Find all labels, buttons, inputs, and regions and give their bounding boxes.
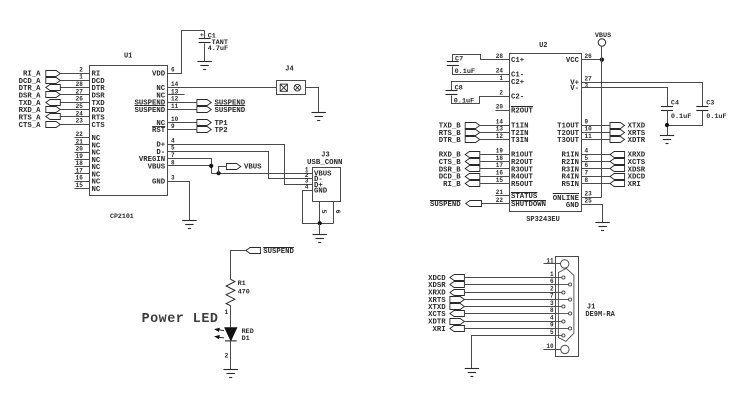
port CTS_A (46, 122, 61, 128)
J1 mounting hole pin 11 (561, 260, 569, 268)
svg-text:GND: GND (314, 188, 328, 196)
svg-text:17: 17 (496, 162, 504, 169)
wire NC stub pin 18 (75, 166, 90, 168)
wire XCTS to J1 pin 8 (465, 313, 556, 315)
wire R4IN to XDCD (582, 176, 611, 178)
port XTXD (610, 123, 625, 129)
wire XDCD to J1 pin 1 (465, 277, 556, 279)
svg-text:C2+: C2+ (511, 79, 525, 87)
IC U2 SP3243EU (510, 54, 582, 212)
port SUSPEND (197, 100, 211, 106)
J1 pin 6 contact (556, 283, 572, 286)
svg-text:DTR_B: DTR_B (439, 137, 462, 145)
ground at LED (224, 370, 238, 378)
port TP1 (197, 120, 211, 126)
J1 pin 5 contact (556, 334, 565, 337)
wire XTXD to J1 pin 3 (465, 306, 556, 308)
svg-text:9: 9 (550, 322, 554, 329)
svg-text:23: 23 (585, 191, 593, 198)
port RXD_A (46, 107, 61, 113)
wire stub pin20 (496, 110, 510, 112)
svg-text:J4: J4 (285, 66, 293, 74)
wire XRI to J1 pin 9 (465, 328, 556, 330)
svg-text:20: 20 (76, 146, 84, 153)
svg-text:VBUS: VBUS (244, 164, 262, 172)
svg-text:18: 18 (496, 155, 504, 162)
svg-text:VCC: VCC (566, 57, 580, 65)
svg-text:T3OUT: T3OUT (557, 137, 580, 145)
ground at C4 C3 (660, 136, 674, 144)
wire NC stub pin 17 (75, 173, 90, 175)
svg-text:R2OUT: R2OUT (511, 108, 534, 116)
wire NC stub pin 15 (75, 188, 90, 190)
wire DCD_B to U2 (480, 176, 510, 178)
svg-text:19: 19 (76, 153, 84, 160)
svg-text:0.1uF: 0.1uF (454, 97, 474, 105)
wire C1 top lead (204, 31, 206, 39)
wire VBUS pin8 (168, 165, 212, 167)
port XDSR at J1 (450, 282, 465, 288)
wire C1+ to C7 (453, 55, 510, 62)
wire RTS_B to U2 (480, 132, 510, 134)
J1 D-sub face outline (558, 268, 574, 341)
wire pin9 to TP2 (168, 129, 197, 131)
wire SUSPEND to R1 (231, 251, 246, 280)
wire XDTR to J1 pin 4 (465, 321, 556, 323)
J1 pin 4 contact (556, 320, 565, 323)
wire XDSR to J1 pin 6 (465, 284, 556, 286)
port DSR_A (46, 92, 61, 98)
wire NC stub pin 13 (168, 94, 185, 96)
wire RTS_A to U1 pin 24 (61, 116, 90, 118)
wire VBUS net to J3 pin1 (212, 173, 313, 175)
svg-text:10: 10 (171, 116, 179, 123)
port XRXD (610, 152, 625, 158)
wire RI_B to U2 (480, 183, 510, 185)
wire C4 to ground (667, 111, 669, 136)
wire XRTS to J1 pin 7 (465, 299, 556, 301)
svg-text:4: 4 (585, 148, 589, 155)
svg-text:12: 12 (496, 133, 504, 140)
svg-text:3: 3 (550, 300, 554, 307)
svg-text:C4: C4 (671, 99, 679, 107)
port /SUSPEND at LED (246, 248, 261, 254)
J1 pin 9 contact (556, 327, 572, 330)
svg-text:10: 10 (585, 126, 593, 133)
svg-text:4.7uF: 4.7uF (208, 45, 228, 53)
svg-text:4: 4 (171, 137, 175, 144)
port XDTR at J1 (450, 319, 465, 325)
svg-text:26: 26 (76, 96, 84, 103)
svg-text:9: 9 (585, 118, 589, 125)
svg-text:VBUS: VBUS (148, 163, 166, 171)
port XRTS (610, 130, 625, 136)
port RI_A (46, 71, 61, 77)
svg-text:2: 2 (550, 285, 554, 292)
svg-text:0.1uF: 0.1uF (706, 113, 726, 121)
J4 pin 1 square (280, 84, 287, 91)
svg-text:1: 1 (79, 74, 83, 81)
wire J3 pin5 stub (319, 202, 321, 224)
wire VCC to VBUS (582, 59, 602, 61)
svg-text:R1: R1 (238, 280, 246, 288)
svg-text:17: 17 (76, 167, 84, 174)
wire U2 GND to ground (582, 205, 603, 223)
svg-text:2: 2 (499, 90, 503, 97)
wire C1 to ground (204, 44, 206, 62)
svg-text:3: 3 (585, 82, 589, 89)
svg-text:5: 5 (320, 210, 327, 214)
capacitor C7 (447, 62, 459, 66)
svg-text:7: 7 (585, 170, 589, 177)
wire DSR_A to U1 pin 27 (61, 94, 90, 96)
wire ONLINE to VBUS rail (582, 197, 602, 199)
port XDCD at J1 (450, 275, 465, 281)
ground at J3 (313, 235, 327, 243)
connector J3 USB_CONN (313, 168, 341, 202)
port RXD_B (465, 152, 480, 158)
ground at C1 (197, 62, 211, 70)
svg-text:15: 15 (496, 177, 504, 184)
svg-text:13: 13 (496, 126, 504, 133)
ground at J4 (312, 113, 326, 121)
wire U1 GND to ground (168, 182, 190, 221)
svg-text:SUSPEND: SUSPEND (215, 107, 246, 115)
svg-text:21: 21 (76, 138, 84, 145)
svg-text:CP2101: CP2101 (110, 213, 134, 220)
svg-text:16: 16 (496, 170, 504, 177)
wire stub to VBUS flag (219, 167, 227, 174)
svg-text:20: 20 (496, 103, 504, 110)
svg-text:11: 11 (171, 103, 179, 110)
port TXD_A (46, 100, 61, 106)
wire R2IN to XCTS (582, 161, 611, 163)
port DCD_B (465, 174, 480, 180)
svg-text:10: 10 (546, 343, 554, 350)
wire J4 to ground (306, 88, 319, 113)
wire J3 pin6 stub (333, 202, 335, 224)
J1 pin 7 contact (556, 298, 572, 301)
svg-text:1: 1 (550, 271, 554, 278)
wire T1OUT to XTXD (582, 125, 611, 127)
svg-text:C8: C8 (455, 84, 463, 92)
svg-text:1: 1 (499, 75, 503, 82)
svg-text:SUSPEND: SUSPEND (135, 107, 166, 115)
svg-text:SUSPEND: SUSPEND (430, 201, 461, 209)
port XDCD (610, 174, 625, 180)
port XDTR (610, 137, 625, 143)
svg-text:26: 26 (585, 53, 593, 60)
wire VBUS rail down to ONLINE (601, 47, 603, 198)
svg-text:6: 6 (171, 66, 175, 73)
port RI_B (465, 181, 480, 187)
svg-text:U1: U1 (124, 53, 132, 61)
wire R1IN to XRXD (582, 154, 611, 156)
svg-text:2: 2 (79, 66, 83, 73)
svg-text:5: 5 (550, 329, 554, 336)
LED arrows (215, 328, 224, 338)
connector J1 DE9M-RA (556, 257, 579, 357)
svg-text:RST: RST (152, 127, 166, 135)
junction VBUS flag stub (217, 171, 221, 175)
port DCD_A (46, 78, 61, 84)
svg-text:R5IN: R5IN (561, 181, 579, 189)
svg-text:6: 6 (334, 210, 341, 214)
svg-text:T3IN: T3IN (511, 137, 529, 145)
wire U1 pin14 to J4 (168, 87, 277, 89)
wire C3 bottom to C4 (668, 111, 703, 126)
wire to ground J3 (319, 224, 321, 235)
LED D1 (225, 328, 237, 341)
port TP2 (197, 127, 211, 133)
IC U1 CP2101 (90, 66, 168, 196)
svg-text:15: 15 (76, 182, 84, 189)
svg-text:28: 28 (76, 81, 84, 88)
port XCTS (610, 159, 625, 165)
svg-text:24: 24 (76, 110, 84, 117)
wire CTS_B to U2 (480, 161, 510, 163)
wire DTR_A to U1 pin 28 (61, 87, 90, 89)
svg-text:VBUS: VBUS (595, 32, 611, 40)
wire TXD_A to U1 pin 26 (61, 102, 90, 104)
wire RI_A to U1 pin 2 (61, 73, 90, 75)
wire SUSPEND to SHUTDOWN (482, 203, 510, 205)
wire D+ U1 pin4 to J3 pin3 (168, 145, 313, 185)
svg-text:STATUS: STATUS (511, 193, 538, 201)
power symbol VBUS (598, 39, 605, 46)
svg-text:D1: D1 (242, 335, 250, 343)
svg-text:25: 25 (585, 198, 593, 205)
wire XRXD to J1 pin 2 (465, 292, 556, 294)
svg-text:28: 28 (496, 53, 504, 60)
port XRXD at J1 (450, 290, 465, 296)
svg-text:25: 25 (76, 103, 84, 110)
port XTXD at J1 (450, 304, 465, 310)
svg-text:11: 11 (546, 257, 554, 264)
svg-text:11: 11 (585, 133, 593, 140)
svg-text:U2: U2 (539, 42, 547, 50)
ground at J1 (465, 369, 479, 377)
svg-text:GND: GND (152, 179, 166, 187)
svg-text:22: 22 (496, 197, 504, 204)
junction C3 C4 ground (665, 123, 669, 127)
wire VDD to C1 (168, 31, 205, 74)
svg-text:8: 8 (585, 177, 589, 184)
wire pin11 to /SUSPEND flag (168, 109, 197, 111)
wire NC stub pin 21 (75, 144, 90, 146)
svg-text:27: 27 (76, 88, 84, 95)
svg-text:12: 12 (171, 96, 179, 103)
svg-text:GND: GND (566, 202, 580, 210)
port CTS_B (465, 159, 480, 165)
port SUSPEND at U2 (466, 201, 482, 207)
port VBUS (226, 164, 240, 170)
J1 pin 1 contact (556, 276, 565, 279)
junction VREGIN/VBUS (209, 164, 213, 168)
svg-text:0.1uF: 0.1uF (671, 113, 691, 121)
wire T3OUT to XDTR (582, 139, 611, 141)
port XDSR (610, 166, 625, 172)
junction J3 ground rail (318, 221, 322, 225)
wire C2+ to C8 (452, 82, 510, 91)
connector J4 (277, 81, 306, 95)
wire J1 pin 10 stub (544, 349, 561, 351)
svg-text:18: 18 (76, 160, 84, 167)
wire R3IN to XDSR (582, 168, 611, 170)
svg-text:DE9M-RA: DE9M-RA (585, 311, 615, 319)
svg-text:24: 24 (496, 68, 504, 75)
port XRI at J1 (450, 326, 465, 332)
port RTS_B (465, 130, 480, 136)
wire TXD_B to U2 (480, 125, 510, 127)
wire DSR_B to U2 (480, 168, 510, 170)
svg-text:TP2: TP2 (215, 127, 228, 135)
svg-text:C7: C7 (455, 55, 463, 63)
wire J1 pin 11 stub (544, 263, 561, 265)
port XRTS at J1 (450, 297, 465, 303)
svg-text:V-: V- (570, 85, 579, 93)
wire RXD_A to U1 pin 25 (61, 109, 90, 111)
wire J3 GND to shield rail (303, 191, 334, 224)
svg-text:16: 16 (76, 175, 84, 182)
svg-text:CTS: CTS (92, 122, 106, 130)
ground at U1 (182, 221, 196, 229)
svg-text:C2-: C2- (511, 94, 524, 102)
svg-text:XDTR: XDTR (628, 137, 646, 145)
capacitor C3 (696, 107, 708, 111)
J1 pin 2 contact (556, 291, 565, 294)
svg-text:23: 23 (76, 118, 84, 125)
J1 pin 3 contact (556, 305, 565, 308)
wire R5IN to XRI (582, 183, 611, 185)
ground at U2 (595, 223, 609, 231)
port TXD_B (465, 123, 480, 129)
svg-text:4: 4 (550, 314, 554, 321)
svg-text:1: 1 (225, 309, 229, 316)
wire J1 pin5 to ground (472, 336, 556, 369)
wire VREGIN down to VBUS net (168, 159, 212, 174)
svg-text:XRI: XRI (628, 181, 641, 189)
wire NC stub pin 22 (75, 137, 90, 139)
svg-text:7: 7 (550, 293, 554, 300)
svg-text:R5OUT: R5OUT (511, 181, 534, 189)
svg-text:SUSPEND: SUSPEND (263, 248, 294, 256)
wire NC stub pin 16 (75, 181, 90, 183)
wire D1 to ground (230, 341, 232, 370)
svg-text:5: 5 (171, 145, 175, 152)
svg-text:RI_B: RI_B (443, 181, 461, 189)
wire stub pin21 (496, 195, 510, 197)
svg-text:4: 4 (305, 184, 309, 191)
svg-text:7: 7 (171, 152, 175, 159)
wire T2OUT to XRTS (582, 132, 611, 134)
svg-text:19: 19 (496, 148, 504, 155)
capacitor C1 (199, 39, 211, 43)
wire CTS_A to U1 pin 23 (61, 124, 90, 126)
port RTS_A (46, 114, 61, 120)
svg-text:6: 6 (550, 278, 554, 285)
svg-text:VDD: VDD (152, 71, 166, 79)
capacitor C4 (661, 107, 673, 111)
svg-text:C1+: C1+ (511, 57, 525, 65)
J1 pin 8 contact (556, 312, 572, 315)
wire RXD_B to U2 (480, 154, 510, 156)
svg-text:8: 8 (550, 307, 554, 314)
svg-text:C3: C3 (706, 99, 714, 107)
capacitor C8 (446, 91, 458, 95)
svg-text:Power LED: Power LED (142, 312, 219, 327)
svg-text:5: 5 (585, 155, 589, 162)
wire NC stub pin 19 (75, 159, 90, 161)
svg-text:+: + (200, 32, 204, 39)
svg-text:SHUTDOWN: SHUTDOWN (511, 201, 546, 209)
svg-text:21: 21 (496, 189, 504, 196)
resistor R1 (226, 279, 235, 305)
junction VCC VBUS (600, 58, 604, 62)
port /SUSPEND (197, 107, 211, 113)
wire D- U1 pin5 to J3 pin2 (168, 152, 313, 179)
svg-text:3: 3 (171, 174, 175, 181)
port DSR_B (465, 166, 480, 172)
wire V- to C4 (582, 88, 668, 107)
svg-text:NC: NC (92, 186, 101, 194)
svg-text:CTS_A: CTS_A (19, 122, 42, 130)
wire V+ to C3 (582, 83, 703, 107)
wire DCD_A to U1 pin 1 (61, 80, 90, 82)
svg-text:USB_CONN: USB_CONN (307, 159, 342, 167)
svg-text:470: 470 (238, 289, 250, 297)
svg-text:2: 2 (225, 353, 229, 360)
wire R1 to D1 (230, 306, 232, 328)
wire C7 to C1- pin24 (453, 67, 510, 75)
wire pin10 to TP1 (168, 122, 197, 124)
wire DTR_B to U2 (480, 139, 510, 141)
svg-text:22: 22 (76, 131, 84, 138)
svg-text:SP3243EU: SP3243EU (526, 216, 560, 224)
port XRI (610, 181, 625, 187)
svg-text:14: 14 (496, 118, 504, 125)
wire C8 to C2- pin2 (452, 96, 510, 104)
port DTR_A (46, 85, 61, 91)
J4 pin 2 circle (294, 84, 301, 91)
svg-text:0.1uF: 0.1uF (455, 68, 475, 76)
port XCTS at J1 (450, 311, 465, 317)
wire pin12 to SUSPEND flag (168, 102, 197, 104)
J1 mounting hole pin 10 (561, 345, 569, 353)
wire NC stub pin 20 (75, 152, 90, 154)
port DTR_B (465, 137, 480, 143)
svg-text:XRI: XRI (433, 326, 446, 334)
